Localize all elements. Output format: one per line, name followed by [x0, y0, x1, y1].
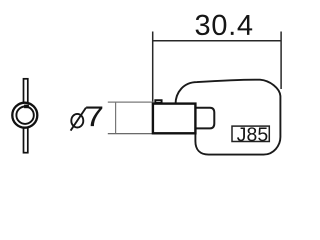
extension line right: [280, 32, 282, 90]
phi7 dimension line vertical: [115, 102, 117, 134]
front view outer circle: [12, 103, 37, 128]
dimension line 30.4: [153, 40, 281, 42]
front view notch: [24, 105, 29, 109]
value 7: [86, 106, 102, 126]
shaft notch (side view): [155, 100, 161, 103]
knob body outline: [176, 80, 281, 155]
shaft side view rectangle: [153, 104, 196, 134]
front view inner circle: [16, 107, 33, 124]
extension line left: [152, 32, 154, 104]
front view shaft bar: [24, 79, 28, 153]
dimension 30.4 label: [196, 15, 253, 36]
phi7 extension line bottom: [108, 133, 153, 135]
J85 label text: [237, 127, 267, 141]
phi7 extension line top: [108, 101, 153, 103]
phi symbol slash: [71, 108, 86, 131]
shaft boss D: [195, 108, 214, 129]
phi symbol loop: [71, 114, 83, 128]
J85 label box: [232, 126, 269, 141]
